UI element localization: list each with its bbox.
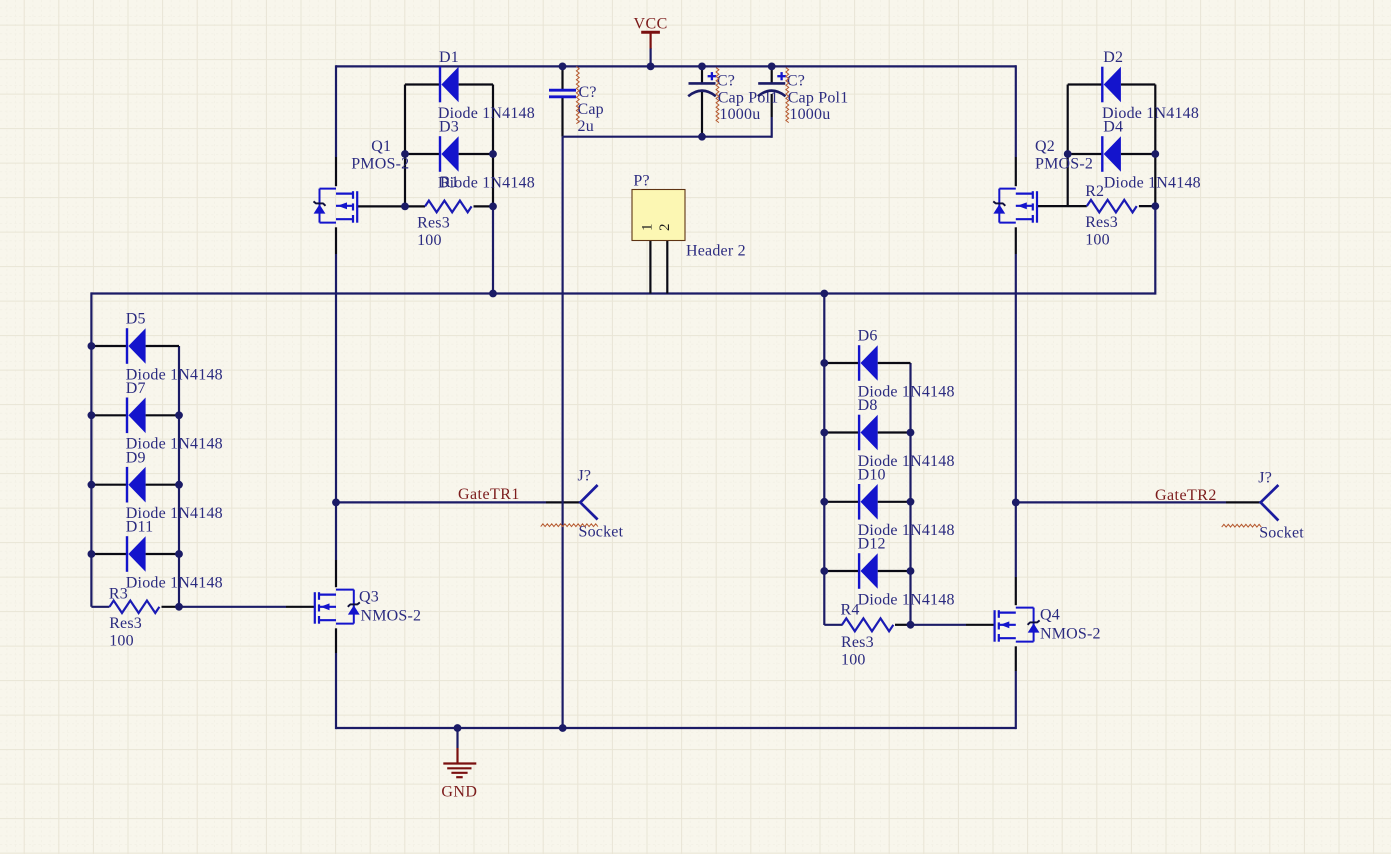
wire <box>909 363 911 625</box>
svg-text:Diode 1N4148: Diode 1N4148 <box>858 591 955 608</box>
svg-text:D7: D7 <box>126 380 146 397</box>
svg-text:100: 100 <box>1085 232 1110 249</box>
wire <box>1121 153 1155 155</box>
svg-text:J?: J? <box>578 468 592 485</box>
wire <box>474 205 494 207</box>
wire <box>459 153 493 155</box>
wire <box>1154 85 1156 207</box>
svg-text:Q3: Q3 <box>359 589 379 606</box>
junction <box>647 63 655 71</box>
resistor R1 <box>417 174 471 249</box>
wire <box>824 624 842 626</box>
wire <box>459 83 493 85</box>
marker squiggle C2 <box>716 68 719 123</box>
svg-text:Q1: Q1 <box>371 138 391 155</box>
diode D2 <box>1102 49 1199 122</box>
junction <box>88 342 96 350</box>
wire <box>335 157 337 186</box>
wire <box>335 628 337 653</box>
wire <box>823 292 825 625</box>
svg-text:Res3: Res3 <box>1085 214 1118 231</box>
net label GateTR1 <box>458 486 520 503</box>
svg-text:VCC: VCC <box>634 15 668 32</box>
wire <box>335 560 337 587</box>
svg-text:D2: D2 <box>1103 49 1123 66</box>
transistor Q1 <box>314 138 410 223</box>
junction <box>489 290 497 298</box>
wire <box>91 553 127 555</box>
svg-text:D5: D5 <box>126 311 146 328</box>
wire <box>878 570 911 572</box>
wire <box>824 362 859 364</box>
socket J1 <box>578 468 624 541</box>
wire <box>146 345 179 347</box>
wire <box>911 624 967 626</box>
wire <box>91 292 1154 294</box>
capacitor C3 Cap Pol1 <box>758 72 849 123</box>
diode D3 <box>438 119 535 192</box>
diode D5 <box>126 311 223 384</box>
wire <box>336 65 1016 67</box>
svg-text:Diode 1N4148: Diode 1N4148 <box>1104 174 1201 191</box>
wire <box>336 727 1016 729</box>
wire <box>162 606 180 608</box>
svg-text:Socket: Socket <box>1259 525 1304 542</box>
svg-text:GateTR1: GateTR1 <box>458 486 520 503</box>
capacitor C1 2u <box>549 84 604 135</box>
svg-text:100: 100 <box>109 632 134 649</box>
junction <box>907 567 915 575</box>
diode D8 <box>858 397 955 470</box>
svg-text:NMOS-2: NMOS-2 <box>361 607 422 624</box>
svg-text:R2: R2 <box>1085 183 1104 200</box>
wire <box>91 484 127 486</box>
wire <box>146 484 179 486</box>
wire <box>335 227 337 254</box>
junction <box>1151 202 1159 210</box>
pin 1 <box>640 224 656 232</box>
junction <box>489 203 497 211</box>
wire <box>824 570 859 572</box>
junction <box>489 150 497 158</box>
wire <box>1016 501 1226 503</box>
marker squiggle J2 <box>1222 524 1262 527</box>
wire <box>771 94 773 117</box>
wire <box>335 254 337 560</box>
wire <box>824 431 859 433</box>
wire <box>336 501 546 503</box>
marker squiggle J1 <box>541 524 598 527</box>
junction <box>175 550 183 558</box>
wire <box>561 97 563 137</box>
power port VCC <box>634 15 668 48</box>
junction <box>907 621 915 629</box>
wire <box>146 553 179 555</box>
junction <box>768 63 776 71</box>
marker squiggle C1 <box>576 67 579 124</box>
svg-text:J?: J? <box>1258 470 1272 487</box>
wire <box>146 414 179 416</box>
wire <box>771 117 773 138</box>
svg-text:R4: R4 <box>841 601 860 618</box>
wire <box>492 85 494 207</box>
junction <box>454 724 462 732</box>
svg-text:1: 1 <box>640 224 656 232</box>
net label GateTR2 <box>1155 487 1217 504</box>
junction <box>401 203 409 211</box>
svg-text:D6: D6 <box>858 328 878 345</box>
wire <box>358 205 425 207</box>
junction <box>88 481 96 489</box>
svg-text:Res3: Res3 <box>841 634 874 651</box>
svg-text:Diode 1N4148: Diode 1N4148 <box>126 574 223 591</box>
diode D12 <box>858 536 955 609</box>
wire <box>456 728 458 748</box>
wire <box>701 91 703 138</box>
svg-text:GND: GND <box>441 784 477 801</box>
wire <box>546 501 580 503</box>
resistor R4 <box>841 601 894 668</box>
svg-text:Q4: Q4 <box>1040 607 1060 624</box>
diode D4 <box>1102 119 1201 192</box>
wire <box>179 606 286 608</box>
socket J2 <box>1258 470 1304 542</box>
wire <box>91 414 127 416</box>
junction <box>907 429 915 437</box>
svg-text:2: 2 <box>657 224 673 232</box>
svg-text:Cap Pol1: Cap Pol1 <box>788 89 849 106</box>
wire <box>1015 65 1017 157</box>
wire <box>771 65 773 83</box>
svg-text:1000u: 1000u <box>789 106 830 123</box>
wire <box>405 153 440 155</box>
svg-text:Res3: Res3 <box>417 214 450 231</box>
svg-text:2u: 2u <box>578 118 594 135</box>
wire <box>1038 205 1087 207</box>
svg-text:PMOS-2: PMOS-2 <box>351 156 409 173</box>
diode D1 <box>438 49 535 122</box>
svg-text:GateTR2: GateTR2 <box>1155 487 1217 504</box>
wire <box>561 65 563 90</box>
wire <box>492 206 494 293</box>
svg-text:D1: D1 <box>439 49 459 66</box>
wire <box>895 624 911 626</box>
wire <box>1067 85 1069 207</box>
junction <box>1012 499 1020 507</box>
junction <box>820 498 828 506</box>
wire <box>1139 205 1155 207</box>
junction <box>820 359 828 367</box>
junction <box>175 481 183 489</box>
wire <box>878 501 911 503</box>
ground GND <box>441 748 477 801</box>
junction <box>175 411 183 419</box>
wire <box>824 501 859 503</box>
wire <box>1015 254 1017 577</box>
pin 2 <box>657 224 673 232</box>
wire <box>178 346 180 607</box>
wire <box>1154 206 1156 295</box>
svg-text:D3: D3 <box>439 119 459 136</box>
svg-text:D11: D11 <box>126 519 154 536</box>
junction <box>820 429 828 437</box>
svg-text:D10: D10 <box>858 467 886 484</box>
junction <box>332 499 340 507</box>
svg-text:R1: R1 <box>440 174 459 191</box>
svg-text:100: 100 <box>841 651 866 668</box>
svg-text:Res3: Res3 <box>109 615 142 632</box>
svg-text:Q2: Q2 <box>1035 138 1055 155</box>
wire <box>1015 227 1017 254</box>
svg-text:Header 2: Header 2 <box>686 243 746 260</box>
svg-text:Cap: Cap <box>578 101 604 118</box>
wire <box>1226 501 1261 503</box>
junction <box>907 498 915 506</box>
wire <box>91 345 127 347</box>
wire <box>404 85 406 207</box>
junction <box>1064 150 1072 158</box>
wire <box>1015 646 1017 671</box>
svg-text:D9: D9 <box>126 449 146 466</box>
wire <box>1015 671 1017 729</box>
junction <box>401 150 409 158</box>
wire <box>1015 577 1017 605</box>
svg-text:NMOS-2: NMOS-2 <box>1040 626 1101 643</box>
svg-text:PMOS-2: PMOS-2 <box>1035 156 1093 173</box>
wire <box>878 362 911 364</box>
junction <box>88 550 96 558</box>
wire <box>91 606 109 608</box>
junction <box>698 63 706 71</box>
connector P1 Header 2 <box>632 173 746 260</box>
wire <box>1015 157 1017 186</box>
svg-text:D12: D12 <box>858 536 886 553</box>
junction <box>820 290 828 298</box>
svg-text:C?: C? <box>579 84 597 101</box>
wire <box>1068 83 1103 85</box>
svg-text:100: 100 <box>417 232 442 249</box>
wire <box>1068 153 1103 155</box>
capacitor C2 Cap Pol1 <box>688 72 778 123</box>
resistor R2 <box>1085 183 1137 249</box>
wire <box>561 137 563 729</box>
junction <box>175 603 183 611</box>
transistor Q4 <box>995 607 1101 643</box>
wire <box>649 241 651 294</box>
diode D9 <box>126 449 223 522</box>
wire <box>1121 83 1155 85</box>
junction <box>559 724 567 732</box>
wire <box>701 65 703 83</box>
svg-text:1000u: 1000u <box>719 106 760 123</box>
diode D6 <box>858 328 955 401</box>
resistor R3 <box>109 585 160 649</box>
wire <box>335 653 337 729</box>
wire <box>286 606 315 608</box>
diode D7 <box>126 380 223 453</box>
junction <box>1151 150 1159 158</box>
svg-text:C?: C? <box>717 72 735 89</box>
junction <box>698 133 706 141</box>
wire <box>405 83 440 85</box>
svg-text:C?: C? <box>787 72 805 89</box>
junction <box>820 567 828 575</box>
svg-text:D8: D8 <box>858 397 878 414</box>
svg-text:D4: D4 <box>1103 119 1123 136</box>
svg-text:P?: P? <box>633 173 649 190</box>
diode D10 <box>858 467 955 540</box>
wire <box>90 292 92 606</box>
junction <box>559 63 567 71</box>
wire <box>649 48 651 66</box>
wire <box>666 241 668 294</box>
marker squiggle C3 <box>786 68 789 123</box>
diode D11 <box>126 519 223 592</box>
wire <box>966 624 995 626</box>
wire <box>878 431 911 433</box>
wire <box>563 136 772 138</box>
transistor Q2 <box>993 138 1093 223</box>
svg-text:R3: R3 <box>109 585 128 602</box>
wire <box>335 65 337 157</box>
junction <box>88 411 96 419</box>
transistor Q3 <box>315 589 421 625</box>
